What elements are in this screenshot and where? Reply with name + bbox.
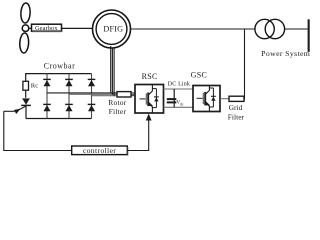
- diode D2 bottom leg3: [88, 104, 96, 111]
- svg-text:Crowbar: Crowbar: [44, 61, 76, 70]
- wire transformer to bus bar: [285, 28, 308, 30]
- crowbar bridge leg 3: [91, 74, 93, 119]
- svg-text:GSC: GSC: [191, 70, 207, 79]
- diode D6 bottom leg2: [65, 104, 73, 111]
- gearbox box: [32, 24, 63, 32]
- thyristor crowbar switch: [21, 98, 31, 118]
- converter RSC box: [135, 85, 164, 114]
- capacitor C dc-link: [167, 89, 184, 107]
- svg-text:RSC: RSC: [142, 72, 158, 81]
- svg-text:Rotor: Rotor: [108, 98, 127, 107]
- power system bus bar: [308, 19, 310, 52]
- wire rotor phase A: [47, 92, 117, 94]
- wire controller to thyristor gate: [4, 111, 72, 150]
- generator DFIG: [93, 10, 131, 48]
- wire crowbar bottom rail: [26, 118, 92, 120]
- wire rotor phase C: [92, 95, 118, 97]
- wire shaft hub to gearbox: [29, 27, 32, 29]
- svg-text:Rc: Rc: [31, 83, 38, 90]
- wire crowbar left branch top: [25, 73, 27, 81]
- wire resistor to thyristor: [25, 90, 27, 98]
- converter GSC box: [193, 86, 220, 112]
- diode D5 top leg3: [88, 79, 96, 86]
- wire grid filter to vertical drop: [244, 98, 245, 100]
- wire DC link bottom rail: [164, 106, 194, 108]
- wire DC link top rail: [164, 88, 194, 90]
- label Grid Filter: [228, 103, 245, 122]
- wire DFIG rotor lead 1: [110, 46, 112, 93]
- svg-text:Gearbox: Gearbox: [35, 25, 58, 32]
- svg-text:Grid: Grid: [229, 103, 243, 112]
- wire DFIG rotor lead 2: [111, 48, 113, 95]
- diode D1 top leg1: [43, 79, 51, 86]
- wire rotor filter to RSC 3-phase: [131, 93, 136, 96]
- controller box: [72, 146, 128, 155]
- wind turbine blade top: [20, 3, 30, 23]
- svg-text:DC Link: DC Link: [168, 82, 190, 88]
- transformer: [255, 19, 285, 38]
- svg-text:dc: dc: [180, 102, 184, 106]
- svg-text:DFIG: DFIG: [103, 25, 123, 34]
- crowbar bridge leg 1: [46, 74, 48, 119]
- svg-text:controller: controller: [83, 146, 116, 155]
- IGBT with diode inside GSC: [197, 86, 216, 112]
- label Rotor Filter: [108, 98, 127, 116]
- diode D3 top leg2: [65, 79, 73, 86]
- grid filter choke: [229, 96, 244, 101]
- wire GSC to grid filter: [220, 98, 229, 100]
- wire grid branch vertical drop: [244, 30, 246, 99]
- wire gearbox to DFIG: [62, 27, 94, 29]
- thyristor gate wire with arrow: [4, 106, 26, 114]
- svg-text:Filter: Filter: [109, 107, 127, 116]
- wind turbine blade bottom: [19, 33, 29, 53]
- svg-text:Power System: Power System: [261, 49, 310, 58]
- wire rotor phase B: [69, 93, 117, 95]
- crowbar bridge leg 2: [68, 74, 70, 119]
- wind turbine hub: [22, 25, 29, 32]
- arrow controller to RSC: [146, 114, 152, 121]
- wire crowbar top rail: [26, 73, 92, 75]
- rotor filter choke: [117, 92, 131, 97]
- wire DFIG stator to transformer: [131, 28, 256, 30]
- IGBT with diode inside RSC: [140, 85, 159, 114]
- diode D4 bottom leg1: [43, 104, 51, 111]
- resistor Rc: [23, 81, 38, 90]
- wire controller to RSC: [127, 120, 148, 151]
- svg-text:Filter: Filter: [228, 113, 245, 122]
- wire DFIG rotor lead 3: [113, 47, 115, 96]
